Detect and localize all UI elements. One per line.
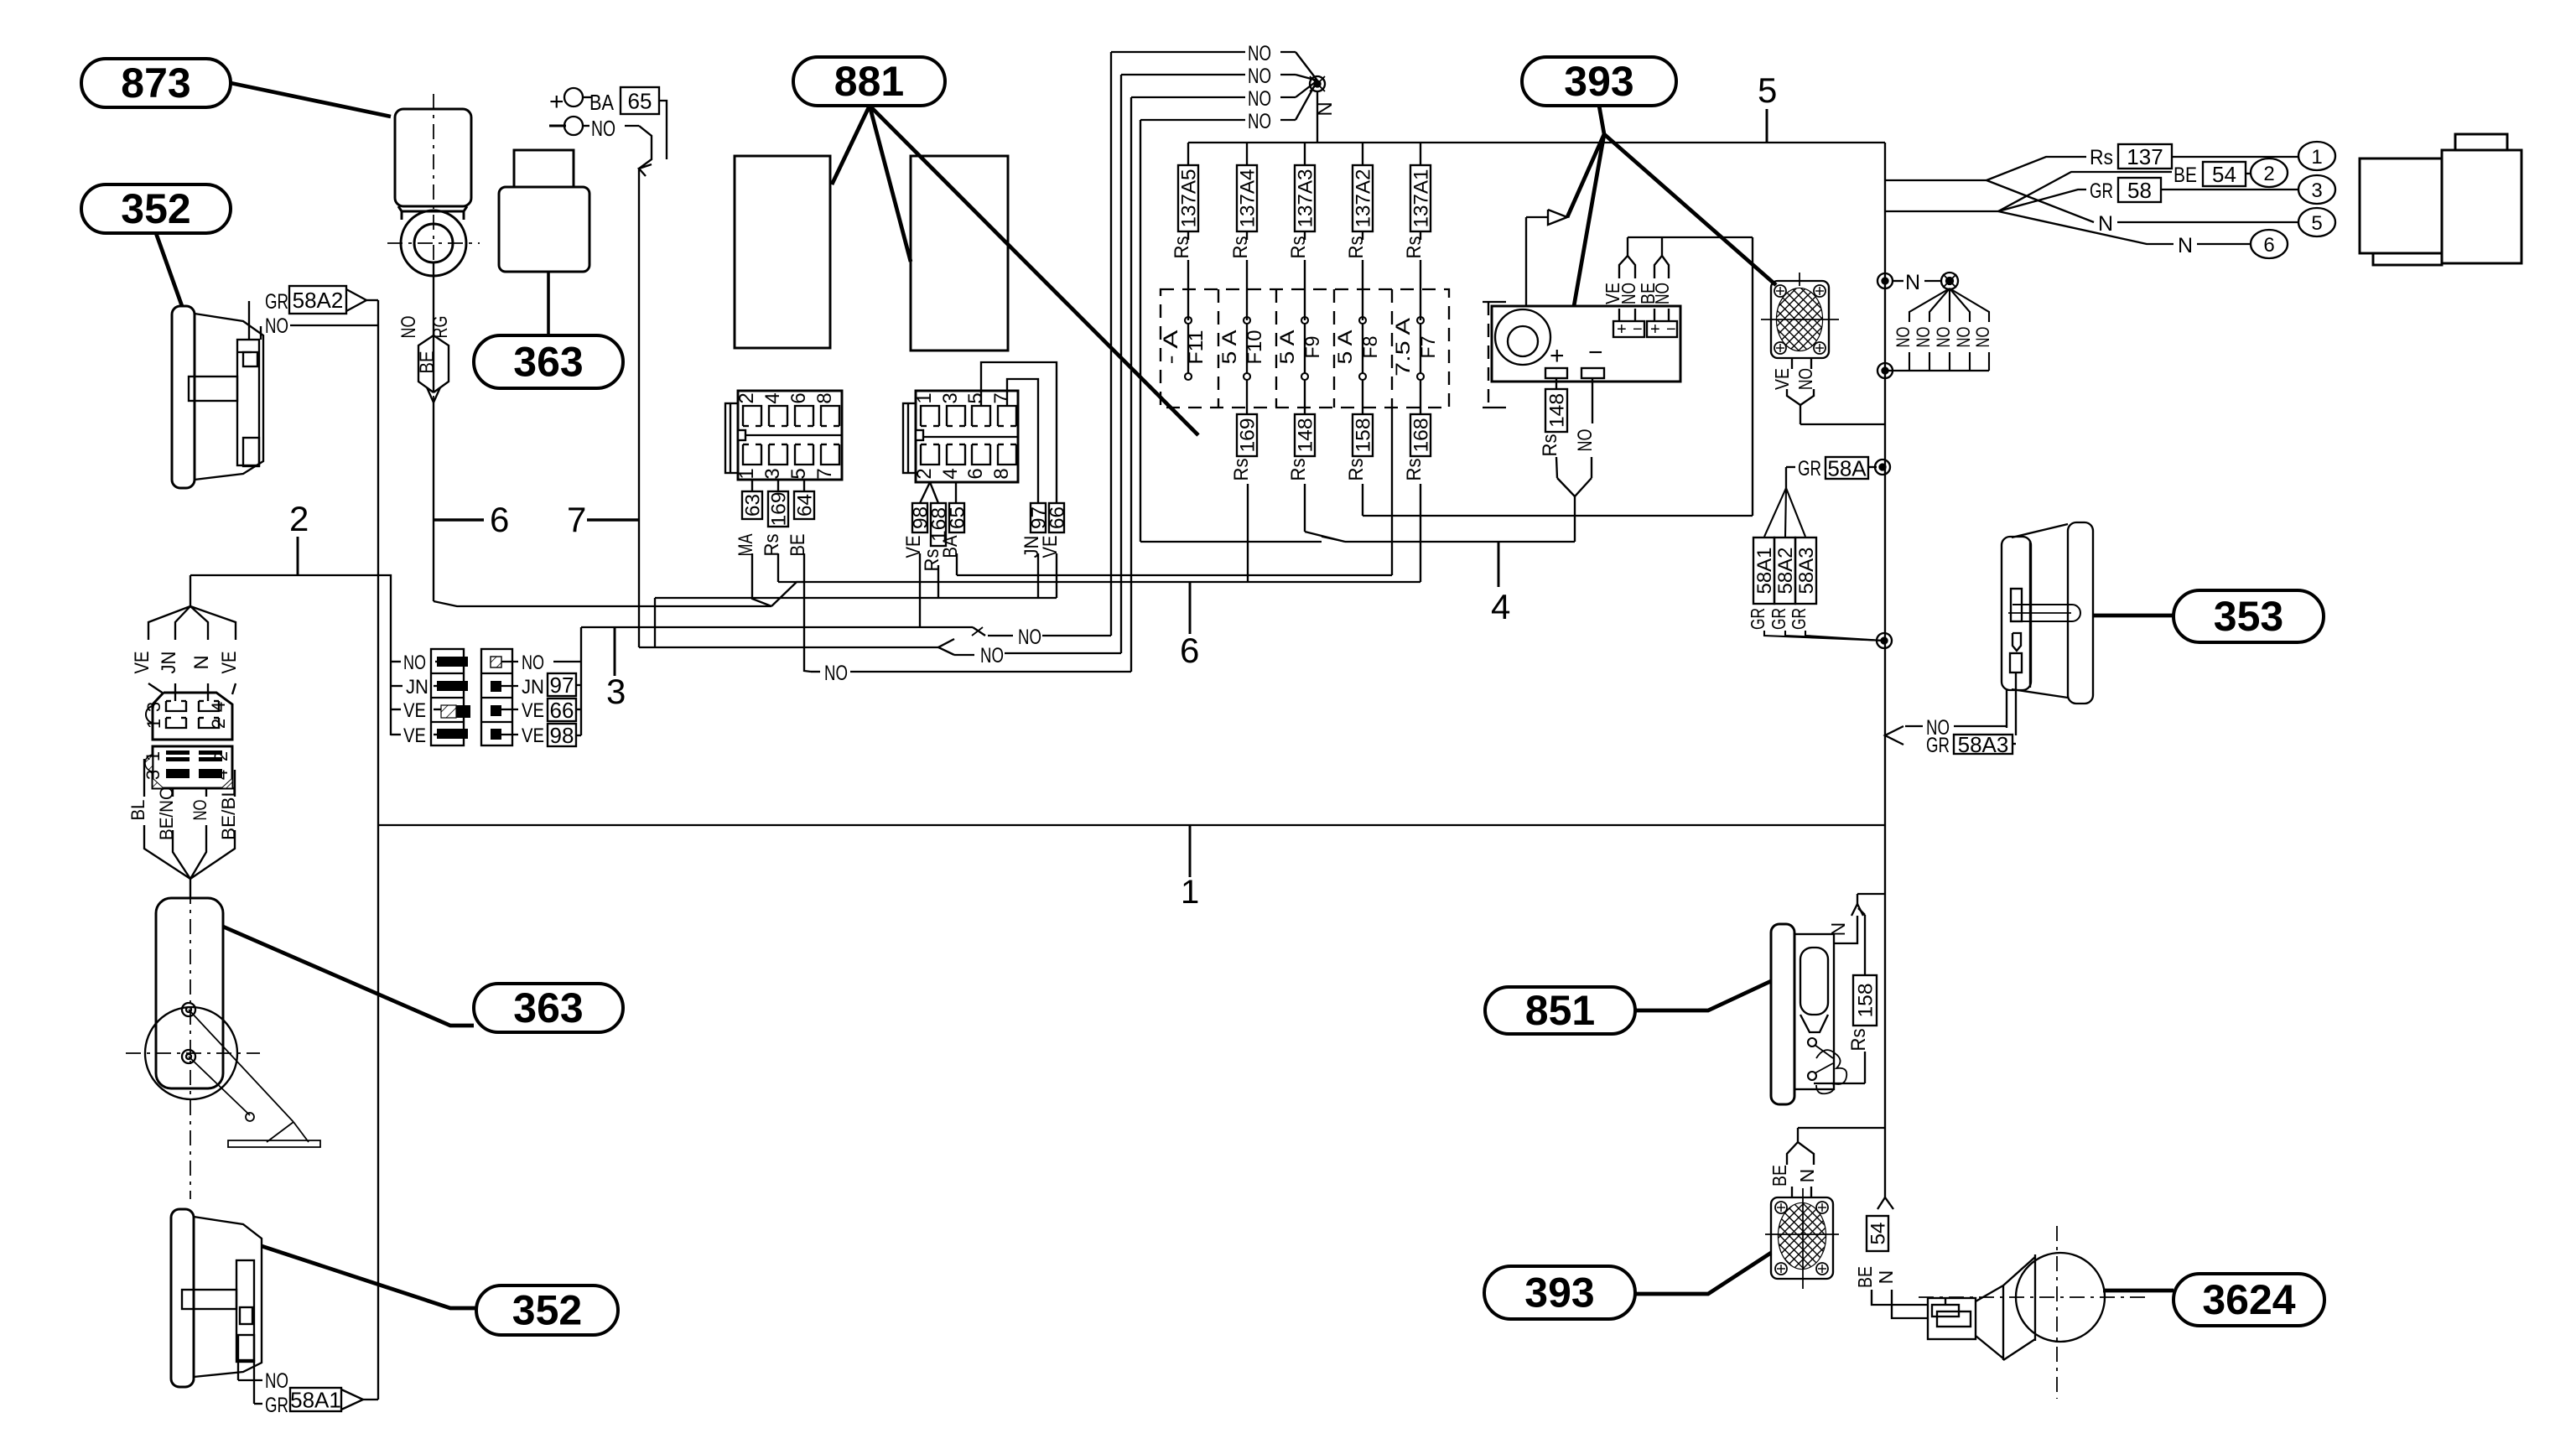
leader 353 to gauge: [2093, 614, 2173, 618]
svg-text:Rs: Rs: [1171, 236, 1193, 259]
leader 881 to fusebox: [870, 106, 1198, 435]
svg-text:58A1: 58A1: [290, 1387, 341, 1412]
connector A pin 3: [166, 701, 186, 711]
svg-text:BE: BE: [416, 351, 439, 374]
leader 393 to module: [1574, 134, 1604, 306]
wire 4 left horizontal: [1140, 541, 1322, 543]
wire 873 down: [433, 262, 434, 392]
svg-text:58A3: 58A3: [1958, 732, 2009, 757]
connector C1 outline: [738, 391, 842, 480]
gauge cone top: [2012, 524, 2068, 538]
pin strip 2 outline: [481, 649, 512, 745]
svg-text:137: 137: [2127, 144, 2163, 169]
wire 6 horizontal: [778, 581, 1420, 583]
svg-text:8: 8: [813, 392, 836, 403]
svg-text:1: 1: [913, 392, 936, 403]
svg-text:137A3: 137A3: [1295, 169, 1317, 228]
cylinder centerline: [190, 889, 191, 1199]
svg-text:7: 7: [990, 392, 1013, 403]
callout 393 bottom: [1484, 1266, 1635, 1319]
connector B outline: [153, 746, 232, 788]
label Rs 137A5: [1178, 165, 1198, 231]
wire Rs158 down: [1864, 1052, 1866, 1083]
C1 pins top: [743, 406, 761, 426]
svg-text:137A4: 137A4: [1237, 169, 1259, 228]
label 65b: [949, 503, 964, 532]
svg-text:3: 3: [939, 392, 962, 403]
lamp 352 top socket2: [243, 438, 259, 466]
speaker bottom chevron: [1787, 1142, 1798, 1165]
svg-text:63: 63: [742, 494, 765, 517]
svg-text:2: 2: [913, 468, 936, 479]
strip2 pin NO hatched: [491, 657, 501, 667]
svg-text:4: 4: [761, 392, 784, 403]
svg-text:2: 2: [210, 751, 231, 761]
svg-text:4: 4: [210, 770, 231, 780]
svg-text:1: 1: [143, 751, 164, 761]
label 64: [794, 491, 814, 519]
lamp 352 bottom bracket: [182, 1290, 236, 1309]
circle 1: [2298, 142, 2335, 170]
pump link: [267, 1122, 293, 1142]
C2 pins bottom: [921, 444, 939, 465]
svg-text:Rs: Rs: [2090, 146, 2113, 169]
svg-text:GR: GR: [265, 1394, 288, 1417]
leader to 352 top lamp: [156, 233, 182, 306]
svg-text:VE: VE: [403, 724, 426, 747]
wire 58A down: [1786, 466, 1795, 468]
label Rs 169: [1237, 414, 1257, 456]
wire 6 label mid: [1189, 582, 1192, 634]
svg-text:Rs: Rs: [1345, 236, 1368, 259]
svg-text:7: 7: [567, 500, 586, 539]
wires 352 top: [248, 301, 250, 340]
wire JN to pin3: [174, 683, 176, 701]
speaker cross lines: [1761, 319, 1839, 320]
housing tab: [2455, 134, 2507, 150]
svg-text:5 A: 5 A: [1218, 330, 1241, 365]
coil neck: [398, 206, 467, 211]
flasher unit 363 body: [499, 187, 589, 272]
svg-text:66: 66: [550, 698, 574, 723]
wires below connector B: [143, 759, 145, 797]
svg-text:6: 6: [787, 392, 810, 403]
label 169: [768, 491, 788, 527]
NO GR 58A3 callout: [1885, 726, 1903, 745]
label Rs 137A4: [1237, 165, 1257, 231]
svg-text:65: 65: [947, 506, 969, 529]
wire F8 out down: [1362, 484, 1363, 516]
ignition coil 873 body: [395, 109, 471, 206]
circle 5: [2298, 208, 2335, 236]
svg-text:3: 3: [143, 702, 164, 712]
svg-text:352: 352: [512, 1287, 582, 1334]
bus node upper: [1877, 273, 1893, 288]
fan node right: [1941, 273, 1958, 289]
wire MA down: [752, 553, 771, 606]
svg-text:NO: NO: [1651, 283, 1673, 304]
wire node to bus: [1317, 91, 1318, 143]
svg-text:BA: BA: [589, 90, 615, 115]
svg-text:137A1: 137A1: [1410, 169, 1433, 228]
svg-text:58A2: 58A2: [1774, 548, 1797, 595]
svg-text:6: 6: [2263, 234, 2274, 257]
leader 851 to lamp: [1635, 981, 1771, 1010]
label Rs 137A1: [1410, 165, 1431, 231]
lamp 352 bottom inner: [236, 1260, 254, 1362]
svg-text:3: 3: [2311, 179, 2322, 202]
svg-text:137A2: 137A2: [1353, 169, 1375, 228]
wire minus net: [1363, 515, 1753, 517]
svg-text:JN: JN: [158, 652, 180, 674]
svg-text:148: 148: [1295, 418, 1317, 453]
svg-text:N: N: [2098, 212, 2113, 236]
svg-text:NO: NO: [1913, 327, 1934, 348]
svg-text:5 A: 5 A: [1276, 330, 1299, 365]
svg-text:3: 3: [606, 672, 626, 711]
svg-text:4: 4: [208, 702, 229, 712]
NO label 1st: [973, 627, 985, 636]
svg-text:58: 58: [2127, 178, 2152, 203]
svg-text:NO: NO: [265, 1369, 288, 1393]
svg-text:N: N: [2178, 234, 2193, 257]
svg-text:158: 158: [1855, 984, 1877, 1018]
svg-text:Rs: Rs: [1230, 459, 1253, 481]
relay box 2: [911, 156, 1008, 351]
wire main right bus: [1884, 143, 1886, 1197]
wire Rs158 up: [1864, 915, 1866, 975]
collector to bus: [1885, 370, 1989, 371]
lamp 352 top inner: [237, 340, 259, 465]
lamp 352 bottom housing: [194, 1217, 262, 1377]
label Rs 137A3: [1295, 165, 1315, 231]
strip VE row 66: [501, 709, 518, 710]
bulb pin circle: [1808, 1038, 1816, 1046]
svg-text:8: 8: [990, 468, 1013, 479]
NO verticals down: [1110, 52, 1112, 636]
svg-text:Rs: Rs: [1539, 434, 1561, 457]
fan to 58A boxes: [1764, 488, 1786, 537]
lamp 352 bottom socket1: [240, 1307, 252, 1324]
lamp 352 top bracket: [189, 377, 237, 401]
svg-text:851: 851: [1525, 987, 1595, 1034]
gauge wires: [2006, 690, 2007, 728]
wire N 851: [1833, 916, 1857, 943]
svg-text:66: 66: [1046, 506, 1069, 529]
svg-text:Rs: Rs: [761, 534, 783, 557]
module clock inner: [1508, 326, 1538, 356]
svg-text:5: 5: [964, 392, 987, 403]
pump pivot node center: [182, 1050, 195, 1063]
svg-text:VE: VE: [403, 699, 426, 722]
svg-text:F7: F7: [1417, 336, 1440, 359]
pump circle 363: [145, 1007, 237, 1099]
svg-text:N: N: [1796, 1169, 1818, 1183]
leader 881 to relay box2: [870, 106, 911, 262]
label Rs 158: [1353, 414, 1373, 456]
svg-text:Rs: Rs: [1345, 459, 1368, 481]
svg-text:393: 393: [1564, 58, 1633, 105]
svg-text:NO: NO: [1972, 327, 1993, 348]
svg-text:169: 169: [768, 492, 791, 527]
svg-text:6: 6: [1180, 631, 1199, 670]
wire 1 label: [1189, 825, 1192, 877]
callout 393 top: [1522, 57, 1676, 106]
svg-text:881: 881: [834, 58, 904, 105]
module terminal 1: [1545, 368, 1567, 378]
strip right labels: [501, 661, 518, 662]
housing step: [2373, 253, 2442, 265]
wires C1 to labels: [751, 480, 753, 491]
svg-text:MA: MA: [735, 534, 757, 557]
svg-text:NO: NO: [1574, 429, 1597, 452]
svg-text:1: 1: [735, 468, 758, 479]
strip2 pin VE2: [491, 729, 501, 740]
module terminal 2: [1581, 368, 1604, 378]
label 66 mid: [548, 699, 576, 721]
leader 363 to cylinder: [223, 927, 474, 1026]
cylinder 363: [156, 898, 223, 1088]
NO fan wires: [1909, 288, 1950, 322]
wire left vertical trunk: [377, 300, 379, 1400]
module pm boxes: [1613, 321, 1644, 337]
gauge detail rect2: [2012, 633, 2021, 651]
leader 363 top: [547, 272, 550, 335]
callout 873: [81, 59, 231, 107]
strip1 pin VE hatched: [455, 705, 470, 718]
NO label 3rd: [811, 671, 820, 673]
horn bell: [2016, 1253, 2105, 1342]
svg-text:GR: GR: [1768, 608, 1789, 630]
pin strip 1 outline: [431, 649, 464, 745]
cable merge to 363 cylinder: [144, 825, 190, 879]
terminal minus: [549, 125, 566, 127]
svg-text:7.5 A: 7.5 A: [1392, 318, 1415, 377]
svg-text:VE: VE: [522, 724, 544, 747]
connector B pin 4: [199, 769, 222, 778]
gauge 353 body: [2068, 522, 2093, 704]
svg-text:Rs: Rs: [1403, 236, 1426, 259]
strip VE row 98: [501, 734, 518, 735]
callout 353: [2173, 590, 2324, 642]
bus node 58A joint: [1877, 633, 1892, 648]
svg-text:6: 6: [490, 500, 509, 539]
wire Rs C1 down: [777, 553, 779, 582]
svg-text:64: 64: [794, 494, 817, 517]
svg-text:54: 54: [1867, 1223, 1890, 1245]
svg-text:NO: NO: [1248, 42, 1271, 65]
svg-text:5: 5: [1758, 70, 1777, 110]
svg-text:N: N: [190, 655, 213, 669]
connector C2 notch: [916, 430, 923, 440]
connector A pin 2: [199, 718, 219, 728]
wire top bus: [1188, 142, 1885, 143]
svg-text:BE: BE: [787, 534, 809, 557]
wire 873 to 6: [433, 402, 434, 601]
svg-text:2: 2: [2263, 163, 2274, 185]
bulb filament: [1816, 1050, 1846, 1093]
relay box 1: [735, 156, 830, 348]
label 168: [931, 503, 946, 546]
svg-text:3: 3: [143, 770, 164, 780]
wires 352 bottom: [237, 1360, 239, 1380]
horn centerlines: [1919, 1296, 2147, 1298]
lamp 352 bottom back: [171, 1209, 194, 1387]
connector A pin 4: [199, 701, 219, 711]
bus branch lower: [1885, 210, 1998, 212]
speaker bottom wires: [1791, 1187, 1793, 1197]
label 66: [1049, 503, 1064, 532]
svg-text:58A2: 58A2: [293, 288, 344, 313]
connector C2 outline: [916, 391, 1018, 482]
svg-text:1: 1: [143, 719, 164, 729]
leader 881 to relay box1: [832, 106, 870, 184]
wire 6 label left: [434, 518, 484, 522]
svg-text:F9: F9: [1301, 336, 1324, 359]
strip1 pin NO: [437, 657, 468, 667]
strip2 pin JN: [491, 681, 501, 692]
wire diag to 6 bus: [771, 582, 805, 606]
lamp 352 top housing: [195, 314, 263, 480]
svg-text:NO: NO: [1248, 87, 1271, 111]
fan BE54: [1998, 172, 2172, 211]
module Rs 148 wire: [1555, 378, 1557, 389]
svg-text:2: 2: [735, 392, 758, 403]
svg-text:BE: BE: [1768, 1165, 1790, 1187]
cable symbol NO BE RG: [418, 335, 434, 392]
connector B pin 1: [166, 750, 190, 755]
label Rs 137A2: [1353, 165, 1373, 231]
pump centerline: [126, 1052, 260, 1054]
svg-text:Rs: Rs: [1403, 459, 1426, 481]
svg-text:58A: 58A: [1827, 455, 1867, 480]
svg-text:1: 1: [2311, 146, 2322, 169]
svg-text:GR: GR: [1926, 734, 1950, 757]
fuse output wires: [1246, 380, 1248, 414]
NO label 2nd funnel: [639, 647, 938, 648]
svg-text:Rs: Rs: [1287, 236, 1310, 259]
svg-text:N: N: [1905, 271, 1920, 294]
horn cone: [1976, 1285, 2003, 1301]
fan GR58: [1998, 190, 2086, 211]
cable chevron 363: [639, 126, 652, 169]
svg-text:JN: JN: [406, 676, 428, 699]
gauge 353 face: [2002, 537, 2031, 690]
circle 3: [2298, 175, 2335, 204]
wire left vertical branch: [190, 575, 391, 735]
wire 4 label: [1498, 542, 1500, 587]
wire JN VE runs: [655, 597, 1057, 599]
svg-text:5: 5: [2311, 212, 2322, 235]
wire N to pin4: [207, 683, 209, 701]
lamp 851 inner box: [1794, 934, 1834, 1089]
svg-text:+: +: [1617, 320, 1627, 339]
leader 352 to bottom lamp: [262, 1246, 476, 1308]
svg-text:3624: 3624: [2202, 1276, 2295, 1323]
circle 6: [2251, 230, 2288, 258]
svg-text:169: 169: [1237, 418, 1259, 453]
svg-text:GR: GR: [265, 290, 288, 314]
svg-text:+: +: [1650, 320, 1660, 339]
svg-text:NO: NO: [1953, 327, 1974, 348]
svg-text:1: 1: [1181, 874, 1199, 911]
svg-text:−: −: [1666, 320, 1676, 339]
horn throat: [2002, 1285, 2004, 1360]
svg-text:NO: NO: [1248, 65, 1271, 88]
gauge stem: [2012, 605, 2080, 621]
circle 2: [2251, 158, 2288, 187]
leader 393 stub: [1599, 106, 1604, 134]
svg-text:BE: BE: [1854, 1266, 1876, 1288]
svg-text:353: 353: [2214, 593, 2283, 640]
leader 393 to arrow: [1567, 134, 1604, 217]
svg-text:6: 6: [964, 468, 987, 479]
label 98: [912, 503, 927, 532]
svg-text:363: 363: [513, 984, 583, 1031]
lamp 352 top back: [172, 306, 195, 488]
speaker top membrane: [1777, 288, 1822, 351]
fuse feed wires: [1187, 231, 1189, 240]
wire F10 out down: [1304, 484, 1306, 532]
svg-text:BE/NO: BE/NO: [156, 787, 177, 840]
speaker bottom outline: [1771, 1197, 1833, 1279]
svg-text:−: −: [1633, 320, 1643, 339]
svg-text:NO: NO: [190, 800, 210, 821]
label Rs 168: [1410, 414, 1431, 456]
collector vertical: [580, 627, 582, 735]
svg-text:NO: NO: [1933, 327, 1954, 348]
lamp 851 bulb: [1800, 948, 1828, 1015]
svg-text:5 A: 5 A: [1334, 330, 1357, 365]
callout 851: [1485, 987, 1635, 1034]
svg-text:NO: NO: [403, 652, 426, 674]
svg-text:RG: RG: [429, 316, 452, 339]
svg-text:+: +: [549, 88, 564, 116]
fan Rs137: [1987, 157, 2086, 180]
connector C1 tab: [725, 403, 738, 473]
module clock outer: [1495, 309, 1550, 365]
label 54 bottom: [1867, 1216, 1888, 1251]
svg-text:GR: GR: [1798, 457, 1821, 480]
svg-text:N: N: [1875, 1270, 1897, 1285]
wires C2 to labels: [920, 482, 930, 503]
svg-text:F11: F11: [1185, 330, 1207, 365]
svg-text:98: 98: [550, 723, 574, 748]
wires to horn plug: [1872, 1290, 1928, 1305]
label 98 mid: [548, 724, 576, 746]
coil centerline: [433, 94, 434, 402]
labels 58A1 58A2 58A3: [1753, 538, 1774, 604]
wires 58A boxes to bus: [1764, 631, 1884, 641]
callout 363 top: [474, 335, 623, 388]
NO wires top: [1111, 51, 1245, 53]
speaker chevron: [1787, 389, 1800, 405]
wire F11 out down: [1247, 484, 1249, 582]
svg-text:168: 168: [1410, 418, 1433, 453]
svg-text:58A3: 58A3: [1795, 548, 1818, 595]
svg-text:54: 54: [2212, 162, 2236, 187]
wire 363 NO down / 7: [638, 169, 640, 520]
svg-text:N: N: [1827, 922, 1849, 937]
svg-text:NO: NO: [980, 644, 1004, 667]
fusebox outline dashed: [1161, 289, 1449, 408]
svg-text:F10: F10: [1244, 330, 1266, 365]
svg-text:NO: NO: [1248, 110, 1271, 133]
bus branch upper: [1885, 179, 1987, 181]
svg-text:GR: GR: [1747, 608, 1768, 630]
funnel to Rs148 NO: [1557, 478, 1592, 496]
wire VE C2 down: [919, 553, 921, 627]
